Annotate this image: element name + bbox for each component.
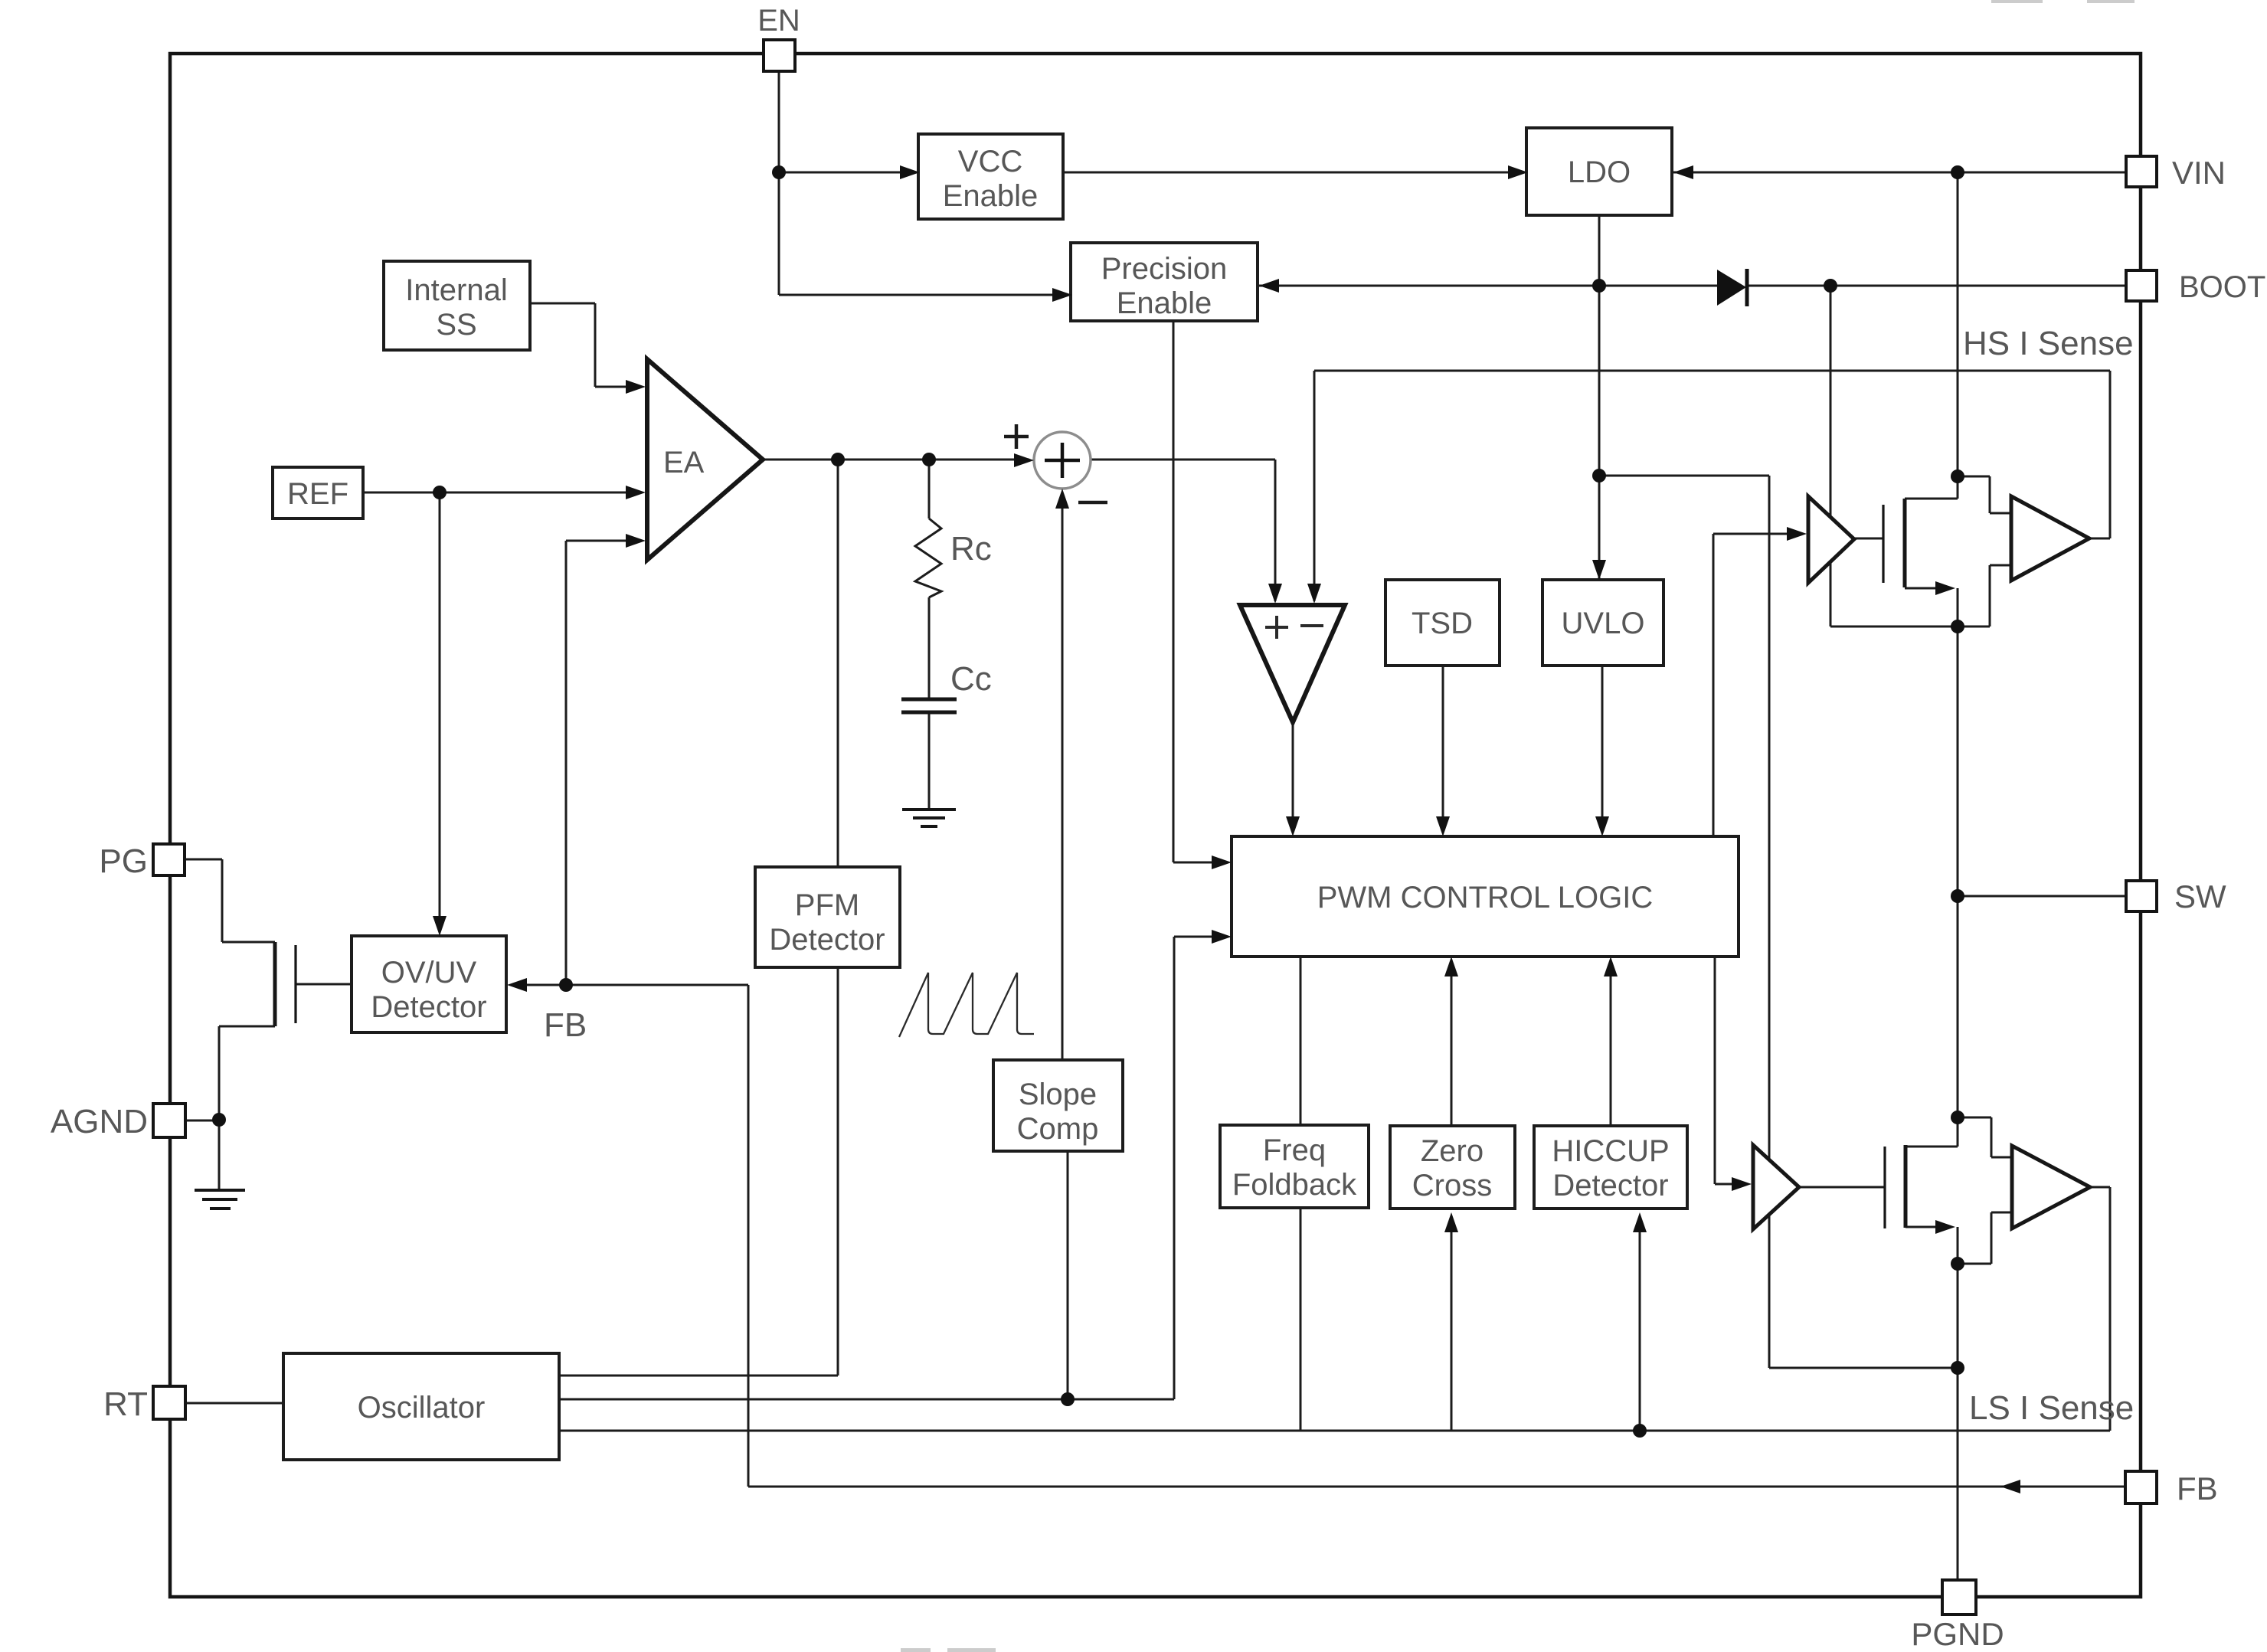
transistor Q1 PG open-drain MOSFET xyxy=(275,942,296,1026)
svg-text:PGND: PGND xyxy=(1911,1616,2004,1652)
block TSD xyxy=(1385,580,1500,666)
node REF junction xyxy=(433,486,447,499)
wire PWM to HS driver input xyxy=(1713,534,1796,836)
svg-text:EN: EN xyxy=(757,4,800,38)
wire LS sense amp output to sense bus xyxy=(2090,1187,2110,1431)
wire switch node rail SW to PGND xyxy=(1957,588,1959,1580)
node sense bus junction at HICCUP xyxy=(1633,1424,1647,1438)
wire PG pull-down path xyxy=(185,859,275,1189)
wire slope comp to summing junction xyxy=(1062,494,1064,1060)
svg-text:AGND: AGND xyxy=(51,1103,148,1140)
node EA output to PFM xyxy=(831,453,845,466)
arrow into HICCUP bottom xyxy=(1633,1212,1647,1232)
svg-text:FB: FB xyxy=(544,1006,587,1044)
wire VIN to LDO xyxy=(1672,172,2126,174)
op-amp EA error amplifier xyxy=(647,359,763,560)
wire TSD output to PWM xyxy=(1442,666,1444,832)
wire EA output xyxy=(763,459,1029,461)
wire LDO output down to UVLO xyxy=(1598,215,1601,578)
wire compensation branch xyxy=(928,460,931,809)
arrow LS MOSFET source xyxy=(1935,1220,1955,1234)
arrow into HS gate driver xyxy=(1787,527,1807,541)
wire HICCUP output to PWM xyxy=(1610,962,1612,1126)
node ramp junction at slope comp xyxy=(1061,1392,1075,1406)
svg-text:VCC: VCC xyxy=(958,145,1022,178)
svg-text:Comp: Comp xyxy=(1017,1112,1099,1146)
block Precision Enable xyxy=(1071,243,1258,321)
arrow into LS gate driver xyxy=(1732,1177,1752,1191)
wire current sense bus xyxy=(559,1430,2110,1432)
net label HS I Sense xyxy=(1963,325,2134,362)
wire PWM to LS driver input xyxy=(1715,949,1741,1184)
wire Internal SS to EA xyxy=(530,303,640,387)
node FB junction xyxy=(559,978,573,992)
plus label at summing junction xyxy=(1004,424,1029,449)
svg-text:HS I Sense: HS I Sense xyxy=(1963,325,2134,362)
node LS source junction xyxy=(1951,1257,1964,1271)
wire PFM detector to EA output node xyxy=(837,460,839,867)
node AGND junction xyxy=(212,1113,226,1127)
svg-text:Rc: Rc xyxy=(950,530,992,568)
pin PGND xyxy=(1911,1580,2004,1652)
arrow into UVLO top xyxy=(1592,560,1606,580)
svg-text:Enable: Enable xyxy=(943,179,1039,213)
op-amp LS current sense amplifier xyxy=(2012,1146,2090,1228)
block UVLO xyxy=(1542,580,1663,666)
wire PG MOSFET gate lead xyxy=(296,983,352,986)
block REF xyxy=(273,467,363,518)
pin BOOT xyxy=(2126,270,2265,304)
svg-text:RT: RT xyxy=(103,1385,148,1423)
arrow into Precision Enable right xyxy=(1259,279,1279,293)
svg-text:SW: SW xyxy=(2174,878,2226,914)
wire FB net to EA and OV/UV xyxy=(512,541,2125,1487)
arrow into EA input 2 xyxy=(626,486,646,499)
op-amp HS current sense amplifier xyxy=(2011,496,2089,581)
svg-text:TSD: TSD xyxy=(1412,607,1473,640)
block Zero Cross xyxy=(1390,1126,1515,1209)
svg-text:BOOT: BOOT xyxy=(2179,270,2265,304)
svg-text:Slope: Slope xyxy=(1019,1078,1097,1111)
svg-text:Foldback: Foldback xyxy=(1232,1168,1357,1202)
svg-text:VIN: VIN xyxy=(2172,155,2226,191)
wire Precision Enable to PWM xyxy=(1173,321,1226,862)
arrow into EA input 3 xyxy=(626,534,646,548)
wire VIN rail down to HS drain xyxy=(1957,172,1959,499)
svg-text:Detector: Detector xyxy=(1552,1169,1668,1202)
node EN junction xyxy=(772,165,786,179)
buffer LS gate driver xyxy=(1753,1145,1799,1229)
svg-text:Enable: Enable xyxy=(1117,286,1212,320)
wire AGND xyxy=(185,1120,219,1122)
wire EN pin to VCC Enable and Precision Enable xyxy=(779,71,1069,295)
arrow into VCC Enable xyxy=(900,165,920,179)
svg-text:FB: FB xyxy=(2177,1470,2218,1506)
svg-text:PWM CONTROL LOGIC: PWM CONTROL LOGIC xyxy=(1317,881,1654,914)
svg-text:Cross: Cross xyxy=(1412,1169,1492,1202)
node LS drain junction xyxy=(1951,1111,1964,1124)
transistor Q2 high-side MOSFET xyxy=(1883,499,1905,587)
svg-text:LS I Sense: LS I Sense xyxy=(1969,1389,2134,1427)
svg-text:Oscillator: Oscillator xyxy=(358,1391,486,1425)
svg-text:Internal: Internal xyxy=(405,273,507,307)
comparator current limit xyxy=(1240,605,1345,722)
node HS source junction xyxy=(1951,620,1964,633)
wire summing junction to current comparator xyxy=(1091,460,1275,601)
svg-text:REF: REF xyxy=(287,477,348,511)
arrow HS MOSFET source xyxy=(1935,581,1955,595)
block OV/UV Detector xyxy=(352,936,506,1032)
block Internal SS xyxy=(384,261,530,350)
wire Freq Foldback to PWM xyxy=(1300,957,1302,1125)
wire LS drain lead xyxy=(1906,1146,1958,1148)
block HICCUP Detector xyxy=(1534,1126,1687,1209)
node SW junction xyxy=(1951,889,1964,903)
wire LDO node to driver rail xyxy=(1599,476,1958,1368)
arrow into comparator minus input xyxy=(1307,584,1321,604)
arrow UVLO into PWM top xyxy=(1595,816,1609,836)
svg-text:OV/UV: OV/UV xyxy=(381,956,477,990)
arrow into OV/UV right xyxy=(507,978,527,992)
sawtooth ramp waveform xyxy=(899,973,1034,1037)
wire VCC Enable output to LDO xyxy=(1063,172,1526,174)
ground at AGND xyxy=(195,1190,245,1209)
wire RT to oscillator xyxy=(185,1402,283,1405)
wire LS sense amp lower input jog xyxy=(1958,1212,2012,1264)
node HS drain junction xyxy=(1951,469,1964,483)
arrow comparator into PWM top xyxy=(1286,816,1300,836)
wire oscillator ramp to slope comp and PWM xyxy=(559,937,1226,1399)
arrow into PWM left input 2 xyxy=(1212,930,1232,944)
svg-text:PFM: PFM xyxy=(795,888,859,922)
svg-text:PG: PG xyxy=(99,842,148,880)
wire Zero Cross bottom input xyxy=(1451,1218,1453,1431)
svg-text:Cc: Cc xyxy=(950,660,992,698)
wire HS sense amp lower input jog xyxy=(1958,565,2011,626)
ground below Cc xyxy=(902,810,956,826)
block Slope Comp xyxy=(993,1060,1123,1151)
arrow into Precision Enable left xyxy=(1052,288,1072,302)
wire oscillator to PFM detector xyxy=(559,967,838,1376)
resistor Rc xyxy=(915,518,992,597)
wire LS source lead xyxy=(1906,1226,1941,1228)
wire Freq Foldback bottom xyxy=(1300,1208,1302,1431)
pin SW xyxy=(2126,878,2226,914)
arrow into EA input 1 xyxy=(626,380,646,394)
scan artifact bottom slivers xyxy=(901,1648,996,1652)
node LDO rail junction xyxy=(1592,469,1606,483)
summing junction xyxy=(1034,432,1091,489)
arrow on FB wire xyxy=(2000,1480,2020,1493)
arrow into Zero Cross bottom xyxy=(1444,1212,1458,1232)
arrow Zero Cross into PWM bottom xyxy=(1444,957,1458,976)
minus label at summing junction xyxy=(1078,501,1107,505)
wire Zero Cross output to PWM xyxy=(1451,962,1453,1126)
pin FB xyxy=(2125,1470,2218,1506)
pin PG xyxy=(99,842,185,880)
wire SW pin xyxy=(1958,895,2126,898)
pin EN xyxy=(757,4,800,71)
arrow into OV/UV top xyxy=(433,916,447,936)
block Freq Foldback xyxy=(1220,1125,1369,1208)
arrow into comparator plus input xyxy=(1268,584,1282,604)
arrow into LDO right xyxy=(1673,165,1693,179)
block PWM CONTROL LOGIC xyxy=(1232,836,1739,957)
svg-text:LDO: LDO xyxy=(1568,155,1631,189)
wire HS sense amp upper input jog xyxy=(1958,476,2011,513)
net label FB internal xyxy=(544,1006,587,1044)
block VCC Enable xyxy=(918,134,1063,219)
block LDO xyxy=(1526,128,1672,215)
wire BOOT rail down to HS source node xyxy=(1830,286,1958,626)
wire UVLO output to PWM xyxy=(1601,666,1604,832)
svg-text:Zero: Zero xyxy=(1421,1134,1484,1168)
wire HS gate xyxy=(1854,538,1883,540)
svg-text:Precision: Precision xyxy=(1101,252,1228,286)
pin RT xyxy=(103,1385,185,1423)
node driver rail junction xyxy=(1951,1361,1964,1375)
arrow TSD into PWM top xyxy=(1436,816,1450,836)
svg-text:Detector: Detector xyxy=(769,923,885,957)
svg-text:EA: EA xyxy=(663,446,705,479)
node VIN rail junction xyxy=(1951,165,1964,179)
arrow into LDO left xyxy=(1508,165,1528,179)
node LDO output junction xyxy=(1592,279,1606,293)
svg-text:SS: SS xyxy=(436,308,476,342)
arrow into PWM left input 1 xyxy=(1212,855,1232,869)
pin VIN xyxy=(2126,155,2226,191)
svg-text:Detector: Detector xyxy=(371,990,486,1024)
transistor Q3 low-side MOSFET xyxy=(1885,1145,1906,1228)
scan artifact top slivers xyxy=(1991,0,2135,3)
node EA output to Rc xyxy=(922,453,936,466)
wire LS gate xyxy=(1799,1186,1885,1189)
block Oscillator xyxy=(283,1353,559,1460)
capacitor Cc xyxy=(901,660,992,712)
wire HS I Sense feedback loop xyxy=(1314,371,2110,601)
arrow into summing junction bottom xyxy=(1055,489,1069,509)
arrow into summing junction left xyxy=(1014,453,1034,467)
wire comparator output to PWM xyxy=(1292,722,1294,832)
svg-text:UVLO: UVLO xyxy=(1562,607,1645,640)
pin AGND xyxy=(51,1103,185,1140)
block PFM Detector xyxy=(755,867,900,967)
wire HS drain lead xyxy=(1905,498,1958,500)
diode D1 bootstrap xyxy=(1717,269,1747,306)
svg-text:HICCUP: HICCUP xyxy=(1552,1134,1669,1168)
svg-text:Freq: Freq xyxy=(1263,1134,1326,1167)
wire LS sense amp upper input jog xyxy=(1958,1117,2012,1157)
node BOOT junction xyxy=(1824,279,1837,293)
wire HICCUP bottom input xyxy=(1639,1218,1641,1431)
wire REF to EA and OV/UV xyxy=(363,492,640,931)
buffer HS gate driver xyxy=(1808,496,1854,583)
wire HS source lead xyxy=(1905,588,1958,626)
wire Precision Enable right input rail xyxy=(1259,285,2126,287)
arrow HICCUP into PWM bottom xyxy=(1604,957,1618,976)
net label LS I Sense xyxy=(1969,1389,2134,1427)
